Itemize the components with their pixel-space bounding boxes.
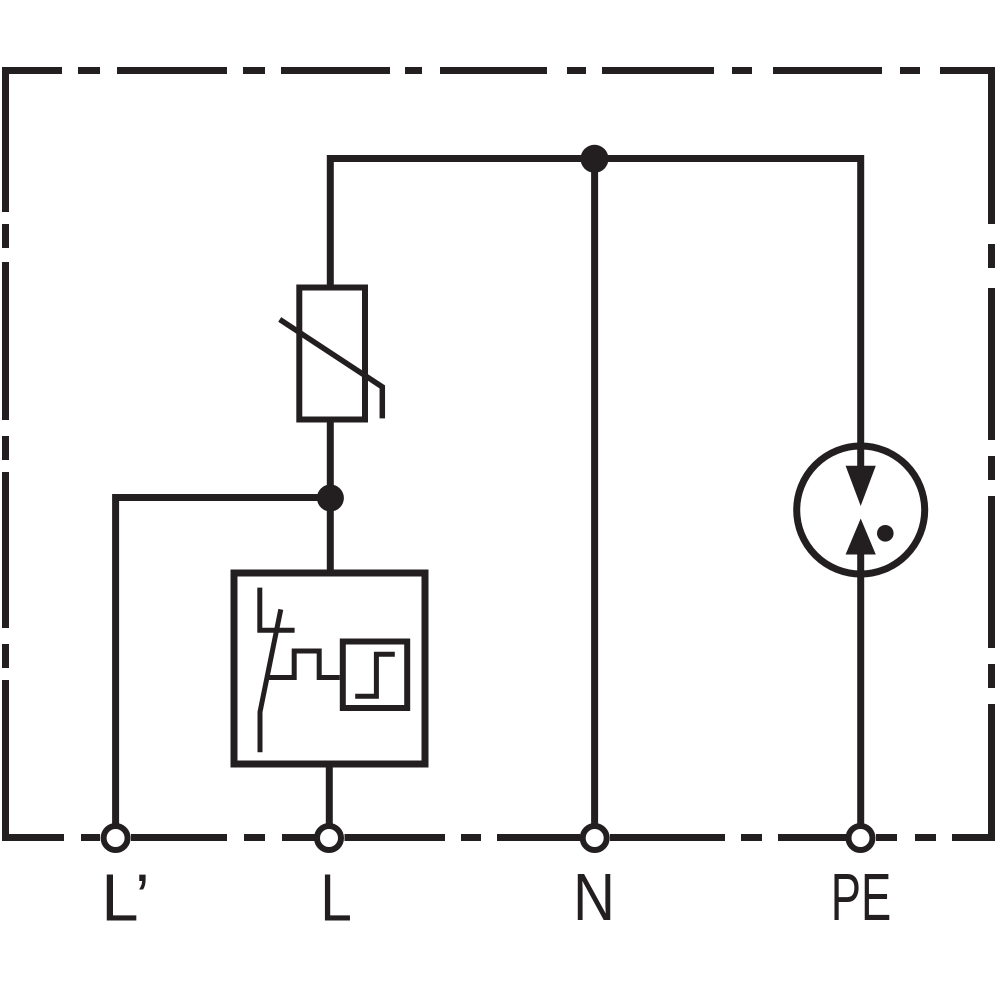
svg-text:L’: L’	[101, 861, 150, 936]
svg-text:N: N	[573, 860, 615, 935]
svg-text:PE: PE	[831, 860, 892, 935]
svg-text:L: L	[320, 861, 352, 936]
